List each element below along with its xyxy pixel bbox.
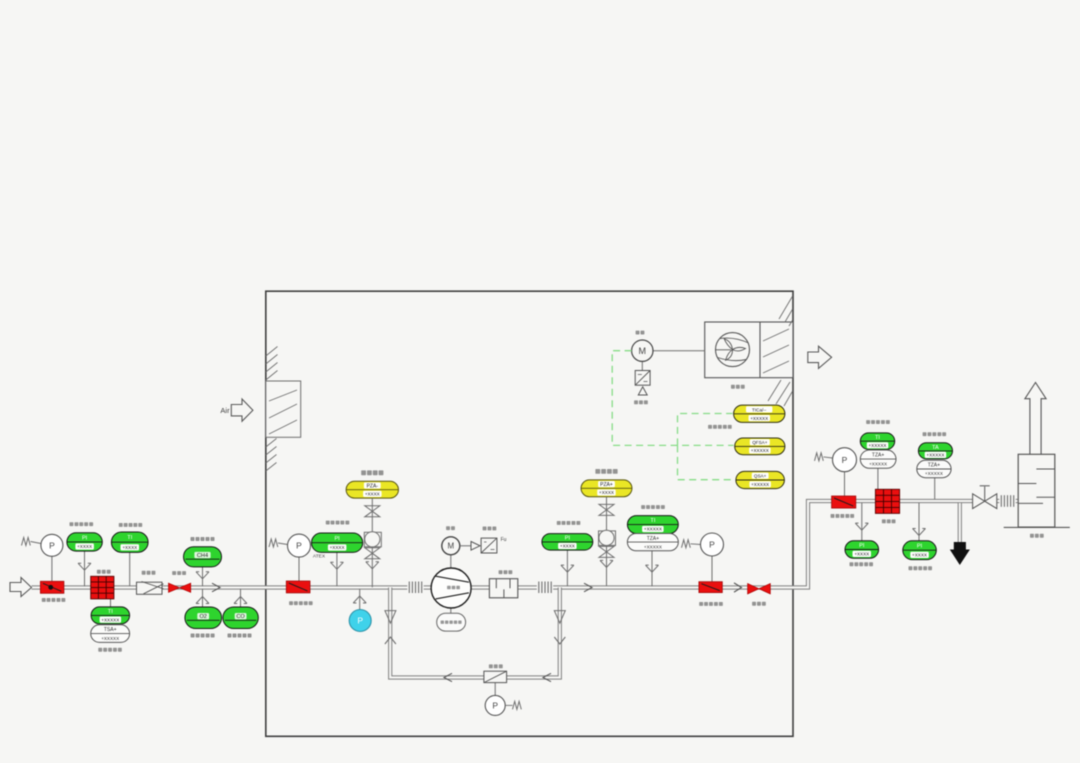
- silencer label: [499, 570, 513, 574]
- svg-text:+XXXXX: +XXXXX: [750, 416, 768, 421]
- Fu label: [501, 537, 507, 543]
- svg-text:TZA+: TZA+: [872, 453, 884, 459]
- blower inverter label: [483, 527, 497, 531]
- signal line branch upper: [678, 414, 733, 446]
- filter label: [142, 571, 156, 575]
- svg-text:P: P: [492, 701, 498, 711]
- gas detector label: [708, 425, 732, 429]
- blower inlet bellows: [407, 582, 423, 594]
- exhaust outlet arrow: [808, 346, 832, 368]
- svg-text:M: M: [447, 542, 454, 551]
- TI sensor 3 oval: [91, 607, 130, 624]
- TI sensor 2 label: [119, 523, 142, 527]
- svg-text:+XXXX: +XXXX: [330, 545, 345, 550]
- PI sensor 5 oval: [542, 534, 593, 551]
- vibration sensor oval: [437, 613, 466, 631]
- ext shutoff valve label: [831, 514, 855, 518]
- blower motor M: [442, 537, 460, 555]
- TZA sensor oval: [627, 534, 678, 551]
- svg-text:TI: TI: [650, 518, 655, 524]
- O2 sensor valve: [196, 597, 209, 604]
- TSA sensor label: [98, 648, 122, 652]
- svg-text:CO: CO: [236, 614, 245, 620]
- inlet shutoff valve label: [42, 598, 66, 602]
- TA sensor oval: [918, 443, 952, 459]
- wall hatch below air louver: [266, 439, 277, 472]
- main pipe run: [32, 501, 973, 588]
- svg-text:+XXXXX: +XXXXX: [926, 453, 944, 458]
- gas detector QFSA oval: [735, 438, 785, 455]
- PI sensor 1 oval: [67, 533, 102, 551]
- PI sensor 5 label: [557, 521, 581, 525]
- ext shutoff valve: [832, 496, 856, 508]
- CO sensor oval: [223, 607, 258, 629]
- svg-text:+XXXXX: +XXXXX: [644, 527, 662, 532]
- PI sensor 7 valve: [913, 529, 926, 536]
- flame arrester 1 label: [97, 570, 111, 574]
- flame arrester 2 label: [882, 519, 896, 523]
- vent tank label: [1030, 534, 1044, 538]
- svg-text:TICa/--: TICa/--: [752, 407, 767, 412]
- ATEX label: [313, 554, 326, 560]
- svg-text:TZA+: TZA+: [928, 463, 940, 469]
- cyan gauge valve: [353, 596, 366, 603]
- ball valve: [169, 583, 191, 592]
- ball valve label: [172, 571, 186, 575]
- exhaust fan label: [731, 385, 745, 389]
- svg-text:TI: TI: [108, 609, 113, 615]
- svg-text:PZA-: PZA-: [367, 483, 379, 489]
- svg-text:P: P: [357, 616, 363, 626]
- svg-text:TZA+: TZA+: [647, 536, 659, 542]
- outlet shutoff valve label: [699, 602, 723, 606]
- vent drop pipe: [958, 503, 962, 543]
- outlet gauge spring: [682, 540, 701, 548]
- flow arrow 2: [584, 583, 592, 592]
- outlet ball valve: [748, 584, 771, 594]
- svg-text:P: P: [296, 541, 302, 551]
- fan motor label: [636, 331, 645, 335]
- TSA sensor oval: [91, 625, 130, 643]
- exhaust fan impeller: [716, 333, 750, 367]
- svg-text:O2: O2: [199, 614, 206, 620]
- exhaust fan housing: [705, 322, 793, 378]
- inlet gauge spring: [22, 538, 41, 546]
- svg-text:P: P: [49, 540, 55, 550]
- blower outlet bellows: [537, 582, 553, 594]
- PI sensor 4 oval: [312, 533, 363, 552]
- outlet shutoff valve: [699, 582, 722, 593]
- svg-text:+XXXXX: +XXXXX: [101, 636, 119, 641]
- cyan pressure gauge: [349, 610, 371, 632]
- svg-text:+XXXX: +XXXX: [599, 490, 614, 495]
- pipe to vent tank: [997, 499, 1018, 503]
- PI sensor 6 oval: [845, 541, 879, 559]
- TI TZA stack label: [641, 505, 665, 509]
- manual globe valve: [973, 486, 997, 509]
- svg-text:P: P: [842, 455, 848, 465]
- outlet ball valve label: [752, 602, 766, 606]
- inlet arrow: [10, 578, 32, 597]
- air inlet louver: [266, 381, 301, 437]
- PI sensor 6 valve: [855, 523, 868, 530]
- vent discharge arrow: [950, 542, 970, 565]
- svg-text:ATEX: ATEX: [313, 554, 326, 560]
- bypass check right: [554, 611, 565, 644]
- signal line branch lower: [678, 445, 735, 479]
- flow arrow 3: [734, 583, 742, 592]
- PI sensor 7 label: [909, 566, 933, 570]
- flow arrow 1: [212, 583, 220, 592]
- PI sensor 4 valve: [330, 562, 343, 569]
- vent tank: [1018, 454, 1055, 527]
- PI sensor 6 label: [850, 562, 874, 566]
- svg-text:+XXXX: +XXXX: [365, 492, 380, 497]
- bypass valve: [484, 671, 507, 682]
- svg-text:QSA+: QSA+: [754, 474, 767, 479]
- CH4 sensor valve: [196, 572, 209, 579]
- pressure regulator 1: [346, 470, 398, 587]
- svg-text:PI: PI: [859, 543, 865, 549]
- svg-text:P: P: [709, 540, 715, 550]
- svg-text:+XXXX: +XXXX: [912, 553, 927, 558]
- svg-text:Air: Air: [220, 406, 230, 415]
- svg-text:+XXXXX: +XXXXX: [869, 462, 887, 467]
- svg-text:PI: PI: [334, 536, 340, 542]
- emergency shutoff valve: [286, 581, 310, 593]
- room inlet gauge: [288, 534, 311, 557]
- TI sensor 2 oval: [111, 532, 148, 552]
- flame arrester 1: [91, 576, 114, 599]
- svg-text:PI: PI: [565, 536, 571, 542]
- signal line motor to detectors: [612, 351, 733, 446]
- svg-text:Fu: Fu: [501, 537, 507, 543]
- svg-text:PI: PI: [82, 535, 88, 541]
- CO sensor label: [228, 634, 252, 638]
- enclosure room wall: [266, 291, 793, 736]
- emergency shutoff valve label: [289, 601, 313, 605]
- outlet gauge: [701, 533, 724, 556]
- PI sensor 4 label: [326, 521, 350, 525]
- svg-text:PI: PI: [917, 544, 923, 550]
- gas detector TIC oval: [734, 405, 785, 422]
- inlet pressure gauge: [41, 534, 63, 556]
- bypass flow arrows: [444, 673, 551, 681]
- TA sensor label: [923, 432, 947, 436]
- wall hatch above air louver: [266, 347, 278, 381]
- room gauge spring: [269, 539, 288, 547]
- ground line: [1004, 526, 1070, 528]
- CH4 sensor label: [191, 537, 215, 541]
- blower inverter: [481, 538, 497, 553]
- TI sensor 6 valve: [646, 565, 659, 572]
- svg-text:TA: TA: [932, 445, 939, 451]
- blower motor arrow: [460, 542, 480, 551]
- TZA sensor 2 oval: [860, 450, 896, 468]
- fan inverter: [635, 371, 650, 396]
- fan inverter label: [634, 400, 648, 404]
- svg-text:+XXXX: +XXXX: [77, 544, 92, 549]
- bypass gauge: [485, 695, 521, 715]
- svg-text:+XXXXX: +XXXXX: [101, 617, 119, 622]
- svg-text:PZA+: PZA+: [600, 482, 613, 488]
- svg-text:CH4: CH4: [197, 553, 208, 559]
- TI sensor 6 oval: [627, 516, 678, 534]
- blower motor label: [446, 526, 455, 530]
- CO sensor valve: [234, 597, 247, 604]
- PI sensor 1 valve: [78, 563, 91, 570]
- ext gauge spring: [815, 453, 833, 461]
- PI sensor 1 label: [70, 522, 94, 526]
- vent stack arrow: [1025, 383, 1046, 455]
- TZA sensor 3 oval: [917, 460, 951, 477]
- O2 sensor oval: [185, 607, 222, 629]
- svg-text:+XXXXX: +XXXXX: [751, 482, 769, 487]
- silencer: [489, 579, 517, 598]
- TI sensor 7 label: [866, 420, 890, 424]
- flame arrester 2: [875, 489, 899, 513]
- svg-text:+XXXX: +XXXX: [122, 545, 137, 550]
- svg-text:TI: TI: [875, 435, 880, 441]
- roots blower: [431, 568, 471, 608]
- O2 sensor label: [191, 634, 215, 638]
- bypass check left: [385, 611, 396, 644]
- svg-text:M: M: [639, 346, 647, 356]
- bypass pipe loop: [390, 588, 560, 678]
- CH4 sensor oval: [184, 547, 222, 567]
- svg-text:+XXXX: +XXXX: [854, 552, 869, 557]
- bypass valve label: [489, 664, 503, 668]
- pressure regulator 2: [581, 469, 632, 586]
- svg-text:+XXXXX: +XXXXX: [644, 544, 662, 549]
- svg-text:QFSA+: QFSA+: [752, 440, 768, 445]
- svg-text:+XXXX: +XXXX: [560, 544, 575, 549]
- gas detector QSA oval: [736, 471, 785, 488]
- inlet shutoff valve: [40, 581, 64, 593]
- vent tank bellows: [999, 495, 1015, 507]
- PI sensor 5 valve: [561, 565, 574, 572]
- filter: [137, 582, 164, 595]
- svg-text:+XXXXX: +XXXXX: [868, 443, 886, 448]
- air inlet arrow: [220, 399, 252, 421]
- fan motor M: [632, 340, 705, 371]
- ext gauge: [833, 448, 857, 472]
- PI sensor 7 oval: [903, 541, 937, 560]
- svg-text:+XXXXX: +XXXXX: [925, 471, 943, 476]
- wall hatch at exhaust: [768, 296, 793, 406]
- TI sensor 7 oval: [860, 433, 894, 450]
- svg-text:TI: TI: [127, 535, 132, 541]
- svg-text:+XXXXX: +XXXXX: [751, 448, 769, 453]
- svg-text:TSA+: TSA+: [104, 627, 117, 633]
- instrument branch lines: [52, 468, 935, 695]
